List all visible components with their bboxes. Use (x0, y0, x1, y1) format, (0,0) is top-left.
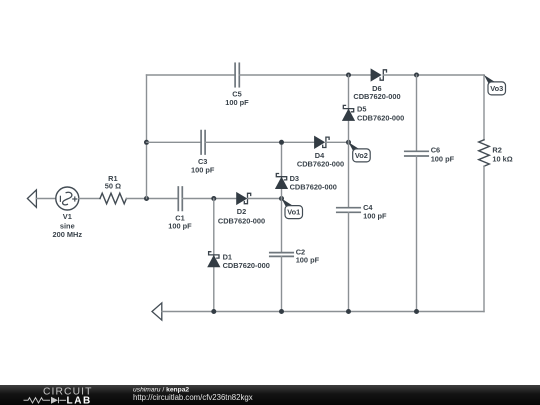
svg-text:100 pF: 100 pF (296, 256, 320, 265)
wire C6 vertical upper (416, 75, 418, 151)
svg-text:LAB: LAB (67, 396, 92, 405)
wire V1 to R1 (79, 198, 100, 200)
svg-text:100 pF: 100 pF (191, 165, 215, 174)
svg-text:V1: V1 (63, 212, 72, 221)
node dot C6 top (414, 73, 419, 78)
svg-text:CDB7620-000: CDB7620-000 (353, 92, 400, 101)
node dot D1 branch (211, 196, 216, 201)
svg-text:CDB7620-000: CDB7620-000 (357, 114, 404, 123)
capacitor C4 (337, 208, 360, 213)
footer bar (0, 385, 540, 405)
capacitor C2 (270, 253, 293, 257)
bottom rail wire (162, 311, 484, 313)
diode D1 (208, 252, 219, 267)
svg-text:200 MHz: 200 MHz (53, 230, 83, 239)
right vertical wire lower (483, 166, 485, 311)
top rail wire left (147, 74, 236, 76)
diode D5 vertical (348, 75, 350, 142)
node dot D5 top (346, 73, 351, 78)
diode D3 vertical (281, 142, 283, 198)
node flag Vo2 (349, 142, 371, 162)
D3 labels (290, 174, 337, 191)
node flag Vo3 (484, 75, 506, 95)
C5 labels (225, 90, 249, 108)
diode D6 (371, 69, 386, 80)
wire C6 vertical lower (416, 156, 418, 312)
wire vertical left riser (146, 75, 148, 199)
C6 labels (431, 146, 455, 164)
node dot Vo2 junction (346, 140, 351, 145)
svg-text:D5: D5 (357, 104, 366, 113)
node dot bottom D1 (211, 309, 216, 314)
wire D2 to Vo1 node (248, 198, 282, 200)
svg-text:100 pF: 100 pF (363, 211, 387, 220)
R2 labels (492, 146, 512, 164)
wire C4 vertical lower (348, 212, 350, 311)
voltage source V1 (56, 187, 79, 210)
capacitor C5 (235, 63, 239, 86)
footer logo mini schematic wire (24, 397, 67, 403)
svg-text:D2: D2 (237, 207, 246, 216)
right vertical wire upper (483, 75, 485, 140)
node dot junction R1/vertical (144, 196, 149, 201)
svg-text:50 Ω: 50 Ω (105, 181, 121, 190)
C3 rail wire right (205, 141, 315, 143)
C3 rail wire left (147, 141, 202, 143)
svg-text:100 pF: 100 pF (225, 98, 249, 107)
node dot Vo1 junction (279, 196, 284, 201)
resistor R2 (479, 140, 490, 166)
C3 labels (191, 157, 215, 174)
svg-text:CDB7620-000: CDB7620-000 (223, 261, 270, 270)
node dot bottom C6 (414, 309, 419, 314)
capacitor C3 (201, 131, 205, 154)
resistor R1 (100, 193, 126, 204)
wire D4 to Vo2 node (326, 141, 349, 143)
capacitor C1 (178, 187, 182, 210)
C2 labels (296, 248, 320, 265)
wire C1 to D2 (182, 198, 237, 200)
svg-text:CDB7620-000: CDB7620-000 (290, 182, 337, 191)
R1 labels (105, 174, 121, 191)
D2 labels (218, 207, 265, 226)
V1 labels (53, 212, 83, 239)
svg-text:http://circuitlab.com/cfv236tn: http://circuitlab.com/cfv236tn82kgx (133, 393, 253, 402)
wire R1 to C1 (126, 198, 178, 200)
C4 labels (363, 203, 387, 220)
svg-text:Vo3: Vo3 (490, 84, 503, 93)
node dot D3 top (279, 140, 284, 145)
svg-text:10 kΩ: 10 kΩ (492, 155, 512, 164)
node flag (ground arrow) left (27, 190, 36, 207)
wire flag to V1 (36, 198, 55, 200)
D4 labels (297, 151, 344, 169)
wire C2 vertical upper (281, 199, 283, 253)
D6 labels (353, 84, 400, 101)
node dot bottom C4 (346, 309, 351, 314)
svg-text:Vo1: Vo1 (287, 208, 300, 217)
svg-text:R2: R2 (492, 146, 501, 155)
footer logo mini diode (51, 397, 58, 404)
node dot bottom C2 (279, 309, 284, 314)
node flag Vo1 (282, 199, 303, 219)
svg-text:CDB7620-000: CDB7620-000 (218, 216, 265, 225)
svg-text:100 pF: 100 pF (168, 222, 192, 231)
svg-text:CDB7620-000: CDB7620-000 (297, 160, 344, 169)
D1 labels (223, 253, 270, 270)
D5 labels (357, 104, 404, 122)
capacitor C6 (405, 151, 428, 156)
node dot riser/C3 rail (144, 140, 149, 145)
top rail wire C5 to D6 (239, 74, 371, 76)
top rail wire D6 to corner (383, 74, 484, 76)
diode D2 (237, 193, 251, 204)
diode D4 (315, 137, 329, 148)
C1 labels (168, 213, 192, 230)
wire C2 vertical lower (281, 256, 283, 311)
wire D1 vertical (213, 199, 215, 312)
wire C4 vertical upper (348, 142, 350, 207)
svg-text:100 pF: 100 pF (431, 155, 455, 164)
node flag (ground arrow) bottom (152, 303, 162, 320)
svg-text:Vo2: Vo2 (355, 151, 368, 160)
svg-text:C6: C6 (431, 146, 440, 155)
